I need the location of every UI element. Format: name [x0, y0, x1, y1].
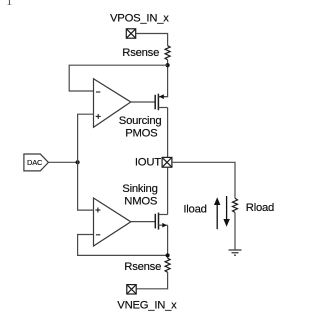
svg-text:NMOS: NMOS [124, 195, 158, 207]
resistor Rsense (bottom) zigzag [165, 258, 170, 272]
ground [229, 250, 242, 255]
resistor Rload zigzag [233, 198, 238, 212]
resistor Rsense (top) zigzag [165, 46, 170, 60]
node A junction dot (Rsense / feedback) [166, 63, 170, 67]
current arrow (down) [223, 196, 229, 227]
svg-text:Rsense: Rsense [122, 47, 159, 59]
transistor Q1 PMOS [155, 94, 167, 111]
current arrow Iload (up) [214, 197, 220, 229]
wire U2 feedback to node C [78, 235, 168, 256]
svg-text:1: 1 [6, 0, 12, 8]
node B junction dot [76, 160, 80, 164]
svg-text:Sourcing: Sourcing [119, 115, 162, 127]
wire feedback top (U1 inverting input to node A) [69, 65, 167, 91]
port IOUT symbol [162, 157, 172, 167]
wire Rload to ground [234, 212, 236, 249]
wire DAC to node B [48, 161, 77, 163]
svg-text:DAC: DAC [27, 158, 43, 167]
wire Rsense bottom to PMOS source [158, 60, 167, 97]
svg-text:Iload: Iload [183, 204, 206, 216]
svg-text:Sinking: Sinking [122, 183, 157, 195]
wire Rsense bottom to VNEG port [137, 272, 168, 289]
svg-text:IOUT: IOUT [135, 157, 161, 169]
svg-text:Rload: Rload [246, 202, 274, 214]
wire IOUT to Rload [173, 162, 235, 198]
wire Q2 drain to IOUT port [167, 167, 169, 214]
wire U1 output to Q1 gate [131, 101, 155, 103]
port VNEG_IN_x symbol [127, 285, 136, 294]
op-amp U2 (sinking) [94, 198, 131, 246]
op-amp U1 (sourcing) [94, 79, 131, 128]
transistor Q2 NMOS [155, 213, 167, 230]
svg-text:PMOS: PMOS [125, 128, 158, 140]
wire U2 output to Q2 gate [131, 221, 155, 223]
svg-text:VNEG_IN_x: VNEG_IN_x [117, 300, 177, 312]
wire VPOS port to Rsense [136, 34, 168, 46]
wire Q2 source down to node C [167, 225, 169, 258]
wire Q1 drain to IOUT port [167, 108, 169, 158]
svg-text:VPOS_IN_x: VPOS_IN_x [110, 12, 169, 24]
port VPOS_IN_x symbol [126, 29, 135, 38]
node C junction dot [166, 253, 170, 257]
svg-text:Rsense: Rsense [124, 261, 161, 273]
wire node B to U1 and U2 noninverting inputs [78, 114, 94, 210]
signal tag DAC [24, 154, 49, 171]
